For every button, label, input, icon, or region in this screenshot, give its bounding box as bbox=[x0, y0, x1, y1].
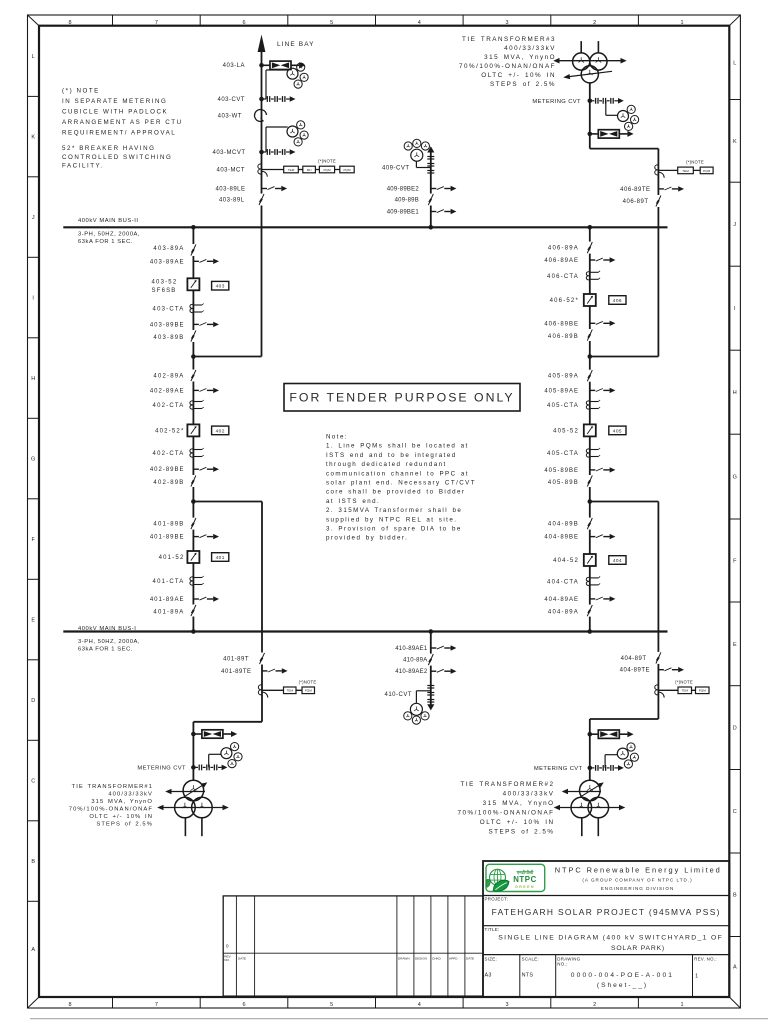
disconnector 402-89B bbox=[189, 475, 198, 487]
svg-text:TEM: TEM bbox=[288, 168, 295, 172]
grid tick dividers top/bottom bbox=[113, 15, 639, 1008]
wire tie1 upper vertical bbox=[261, 502, 263, 722]
svg-text:406-89B: 406-89B bbox=[548, 334, 579, 340]
svg-text:401-89B: 401-89B bbox=[153, 522, 184, 528]
grid numbers bottom bbox=[68, 1002, 683, 1008]
svg-text:A: A bbox=[733, 965, 737, 971]
svg-text:4: 4 bbox=[418, 1002, 421, 1008]
svg-text:OLTC +/- 10% IN: OLTC +/- 10% IN bbox=[89, 814, 153, 820]
svg-text:TIE TRANSFORMER#3: TIE TRANSFORMER#3 bbox=[462, 36, 556, 43]
svg-text:PQM: PQM bbox=[699, 689, 706, 693]
wire tie3 vertical bbox=[657, 149, 659, 357]
bay ref box 405 bbox=[609, 426, 626, 435]
wire tie1 lower vertical bbox=[192, 722, 194, 781]
CVT winding cluster tie3 bbox=[618, 105, 639, 130]
CVT tap wire tie2 bbox=[605, 755, 617, 768]
earth switch 401-89AE bbox=[193, 596, 219, 601]
svg-text:B: B bbox=[733, 893, 737, 899]
grid numbers top bbox=[68, 20, 683, 26]
current transformer 402-CTA lower bbox=[190, 448, 204, 457]
revision table bbox=[223, 896, 483, 996]
svg-text:404: 404 bbox=[613, 558, 622, 564]
svg-text:ARRANGEMENT AS PER CTU: ARRANGEMENT AS PER CTU bbox=[62, 119, 183, 126]
svg-text:405-89A: 405-89A bbox=[548, 374, 579, 380]
svg-text:410-89AE1: 410-89AE1 bbox=[395, 646, 428, 652]
svg-text:404-89AE: 404-89AE bbox=[544, 597, 579, 603]
meter box TEM bbox=[284, 687, 297, 694]
svg-text:APPD: APPD bbox=[449, 956, 458, 960]
disconnector 404-89T bbox=[654, 652, 663, 664]
svg-text:402-CTA: 402-CTA bbox=[153, 403, 185, 409]
svg-text:4: 4 bbox=[418, 20, 421, 26]
capacitor voltage transformer 403-CVT bbox=[259, 70, 295, 102]
svg-text:5: 5 bbox=[330, 1002, 333, 1008]
svg-text:7: 7 bbox=[155, 20, 158, 26]
svg-text:403-89L: 403-89L bbox=[219, 198, 245, 204]
svg-text:TIE TRANSFORMER#1: TIE TRANSFORMER#1 bbox=[72, 784, 153, 790]
svg-text:SOLAR PARK): SOLAR PARK) bbox=[611, 945, 665, 952]
current transformer 401-CTA bbox=[190, 576, 204, 585]
svg-text:405-CTA: 405-CTA bbox=[547, 403, 579, 409]
svg-text:404-89T: 404-89T bbox=[621, 656, 647, 662]
svg-text:63kA FOR 1 SEC.: 63kA FOR 1 SEC. bbox=[78, 646, 133, 652]
svg-text:D: D bbox=[733, 726, 737, 732]
svg-text:G: G bbox=[733, 475, 737, 481]
svg-text:406-89AE: 406-89AE bbox=[544, 258, 579, 264]
earth switch 405-89BE bbox=[590, 467, 616, 472]
svg-text:K: K bbox=[31, 135, 35, 141]
svg-text:409-89B: 409-89B bbox=[395, 198, 419, 204]
earth switch 406-89BE bbox=[590, 321, 616, 326]
svg-text:406-89BE: 406-89BE bbox=[544, 321, 579, 327]
svg-text:401-89T: 401-89T bbox=[223, 657, 249, 663]
junction dots on buses and nodes bbox=[191, 225, 592, 634]
svg-text:LINE BAY: LINE BAY bbox=[277, 41, 315, 48]
circuit breaker 405-52 bbox=[583, 424, 596, 437]
svg-text:7: 7 bbox=[155, 1002, 158, 1008]
svg-text:SIZE:: SIZE: bbox=[485, 956, 497, 961]
wire node2-left horizontal bbox=[193, 501, 262, 503]
meter box PQM bbox=[696, 687, 710, 694]
bay ref box 406 bbox=[609, 296, 626, 305]
metering CT tie2 bbox=[655, 685, 696, 698]
CVT capacitor stack 409 bbox=[427, 157, 434, 174]
earth switch 403-89BE bbox=[193, 322, 219, 327]
metering CVT 403-MCVT bbox=[259, 127, 295, 155]
svg-text:PQM: PQM bbox=[305, 689, 312, 693]
CVT tap wire tie3 bbox=[606, 101, 618, 116]
svg-text:5: 5 bbox=[330, 20, 333, 26]
svg-text:401-89TE: 401-89TE bbox=[221, 669, 251, 675]
meter box MU bbox=[303, 166, 316, 173]
svg-text:70%/100%-ONAN/ONAF: 70%/100%-ONAN/ONAF bbox=[458, 810, 555, 817]
svg-text:TEM: TEM bbox=[681, 689, 688, 693]
bay 410 down arrow bbox=[427, 704, 434, 710]
svg-text:70%/100%-ONAN/ONAF: 70%/100%-ONAN/ONAF bbox=[69, 807, 153, 813]
tie transformer 1 top arrow bbox=[165, 789, 205, 795]
size scale drawing cells bbox=[485, 956, 717, 988]
CVT winding cluster tie1 bbox=[221, 743, 242, 768]
svg-text:B: B bbox=[31, 859, 35, 865]
wave trap inner hook bbox=[261, 117, 264, 120]
svg-text:METERING CVT: METERING CVT bbox=[137, 765, 186, 771]
svg-text:J: J bbox=[733, 222, 736, 228]
svg-text:(*)NOTE: (*)NOTE bbox=[318, 159, 336, 164]
wire bay 409 vertical bbox=[430, 152, 432, 227]
svg-text:at ISTS end.: at ISTS end. bbox=[326, 498, 380, 505]
svg-text:315 MVA, YnynO: 315 MVA, YnynO bbox=[483, 800, 555, 807]
svg-text:TEM: TEM bbox=[682, 169, 689, 173]
svg-text:communication channel to PPC a: communication channel to PPC at bbox=[326, 470, 469, 477]
svg-text:400/33/33kV: 400/33/33kV bbox=[503, 791, 555, 798]
svg-text:DATE: DATE bbox=[466, 956, 474, 960]
disconnector 409-89B bbox=[426, 194, 435, 206]
svg-text:405-CTA: 405-CTA bbox=[547, 451, 579, 457]
svg-text:NO.:: NO.: bbox=[557, 962, 567, 967]
circuit breaker 403-52 bbox=[187, 278, 200, 291]
svg-text:G: G bbox=[31, 457, 35, 463]
svg-text:400/33/33kV: 400/33/33kV bbox=[108, 792, 153, 798]
CVT tap wire 409 bbox=[416, 161, 430, 167]
meter box TEM bbox=[678, 167, 694, 174]
earth switch 404-89TE bbox=[658, 667, 684, 672]
svg-text:70%/100%-ONAN/ONAF: 70%/100%-ONAN/ONAF bbox=[459, 63, 556, 70]
svg-text:405-89B: 405-89B bbox=[548, 480, 579, 486]
svg-text:3. Provision of spare DIA to b: 3. Provision of spare DIA to be bbox=[326, 526, 462, 533]
svg-text:315 MVA, YnynO: 315 MVA, YnynO bbox=[484, 54, 556, 61]
svg-text:J: J bbox=[32, 215, 35, 221]
svg-text:TIE TRANSFORMER#2: TIE TRANSFORMER#2 bbox=[461, 781, 555, 788]
current transformer 406-CTA bbox=[586, 271, 600, 280]
disconnector 403-89B bbox=[189, 330, 198, 342]
line bay up arrow bbox=[258, 35, 266, 53]
svg-text:3-PH, 50HZ, 2000A,: 3-PH, 50HZ, 2000A, bbox=[78, 231, 140, 237]
svg-text:(*) NOTE: (*) NOTE bbox=[62, 88, 100, 95]
FOR TENDER PURPOSE ONLY box bbox=[284, 384, 520, 412]
tie transformer 1 bottom arrow bbox=[157, 805, 229, 811]
svg-text:402: 402 bbox=[216, 428, 225, 434]
label tie transformer 2 bbox=[458, 781, 555, 836]
CVT winding cluster 410-CVT bbox=[404, 703, 429, 724]
svg-text:METERING CVT: METERING CVT bbox=[532, 99, 581, 105]
svg-text:3: 3 bbox=[505, 1002, 508, 1008]
CVT tap wire 410 bbox=[416, 691, 430, 703]
tie transformer 1 LV legs bbox=[185, 817, 202, 836]
svg-text:404-52: 404-52 bbox=[553, 558, 579, 564]
svg-text:REQUIREMENT/ APPROVAL: REQUIREMENT/ APPROVAL bbox=[62, 130, 176, 137]
disconnector 404-89B bbox=[585, 518, 594, 530]
disconnector 401-89B bbox=[189, 518, 198, 530]
svg-text:403-52: 403-52 bbox=[152, 280, 178, 286]
earth switch 409-89BE1 bbox=[431, 209, 457, 214]
svg-text:2: 2 bbox=[593, 1002, 596, 1008]
svg-text:A3: A3 bbox=[485, 973, 492, 979]
tie transformer 3 top arrow bbox=[553, 58, 626, 64]
earth switch 404-89BE bbox=[590, 534, 616, 539]
svg-text:406-89A: 406-89A bbox=[548, 246, 579, 252]
svg-text:401-89A: 401-89A bbox=[153, 610, 184, 616]
svg-text:C: C bbox=[31, 779, 35, 785]
earth switch 402-89BE bbox=[193, 467, 219, 472]
wire tie2 upper vertical bbox=[657, 502, 659, 720]
svg-text:STEPS of 2.5%: STEPS of 2.5% bbox=[488, 829, 554, 836]
disconnector 404-89A bbox=[585, 605, 594, 617]
wire node2-right horizontal bbox=[590, 501, 659, 503]
svg-text:C: C bbox=[733, 809, 737, 815]
svg-text:supplied by NTPC REL at site.: supplied by NTPC REL at site. bbox=[326, 516, 457, 523]
earth switch 403-89AE bbox=[193, 259, 219, 264]
svg-text:405-52: 405-52 bbox=[553, 428, 579, 434]
svg-text:404-89A: 404-89A bbox=[548, 610, 579, 616]
svg-text:401: 401 bbox=[216, 555, 225, 561]
svg-text:STEPS of 2.5%: STEPS of 2.5% bbox=[490, 81, 556, 88]
metering CVT junction tie2 bbox=[588, 765, 624, 771]
title row bbox=[485, 927, 724, 952]
svg-text:IN SEPARATE METERING: IN SEPARATE METERING bbox=[62, 98, 167, 105]
earth switch 401-89TE bbox=[262, 668, 288, 673]
label tie transformer 3 bbox=[459, 36, 556, 88]
svg-text:FOR TENDER PURPOSE ONLY: FOR TENDER PURPOSE ONLY bbox=[289, 391, 514, 405]
tie transformer 2 top arrow bbox=[562, 789, 601, 795]
svg-text:CONTROLLED SWITCHING: CONTROLLED SWITCHING bbox=[62, 154, 172, 161]
wire tie2 lower vertical bbox=[589, 719, 591, 781]
svg-text:A: A bbox=[31, 947, 35, 953]
svg-text:FACILITY.: FACILITY. bbox=[62, 163, 104, 170]
svg-text:402-CTA: 402-CTA bbox=[153, 451, 185, 457]
CVT winding cluster 403-MCVT bbox=[287, 121, 308, 146]
svg-text:SINGLE LINE DIAGRAM (400 k: SINGLE LINE DIAGRAM (400 kV SWITCHYARD_1… bbox=[498, 935, 723, 942]
wire left bay column bbox=[192, 227, 194, 631]
earth switch 409-89BE2 bbox=[431, 186, 457, 191]
grid letters right bbox=[733, 61, 737, 971]
svg-text:PQM: PQM bbox=[343, 168, 350, 172]
bay ref box 402 bbox=[212, 426, 229, 435]
circuit breaker 404-52 bbox=[583, 554, 596, 567]
svg-text:NTPC: NTPC bbox=[513, 875, 537, 884]
current transformer 404-CTA bbox=[586, 576, 600, 585]
svg-text:315 MVA, YnynO: 315 MVA, YnynO bbox=[91, 799, 153, 805]
current transformer 403-CTA bbox=[190, 304, 204, 313]
svg-text:403-CVT: 403-CVT bbox=[217, 97, 245, 103]
svg-text:Note:: Note: bbox=[326, 434, 348, 441]
disconnector 401-89A bbox=[189, 605, 198, 617]
bottom paper shadow bbox=[30, 1018, 768, 1020]
svg-text:406-CTA: 406-CTA bbox=[547, 274, 579, 280]
metering CT 403-MCT bbox=[258, 164, 340, 177]
meter box PQM bbox=[700, 167, 713, 174]
svg-text:CUBICLE WITH PADLOCK: CUBICLE WITH PADLOCK bbox=[62, 109, 168, 116]
svg-text:L: L bbox=[32, 54, 35, 60]
earth switch 402-89AE bbox=[193, 388, 219, 393]
svg-text:403-89A: 403-89A bbox=[153, 246, 184, 252]
bus 400kV MAIN BUS-II bbox=[63, 226, 667, 228]
meter box PQM bbox=[340, 166, 354, 173]
grid tick dividers right bbox=[729, 100, 740, 937]
svg-text:403-89BE: 403-89BE bbox=[150, 322, 185, 328]
wire tie3 transformer drop bbox=[589, 83, 591, 149]
tie transformer 1 windings bbox=[175, 780, 213, 818]
svg-text:METERING CVT: METERING CVT bbox=[534, 766, 583, 772]
grid letters left bbox=[31, 54, 35, 953]
svg-text:6: 6 bbox=[242, 1002, 245, 1008]
svg-text:E: E bbox=[31, 618, 35, 624]
bus 400kV MAIN BUS-I bbox=[63, 630, 667, 632]
svg-text:MU: MU bbox=[307, 168, 312, 172]
metering CVT junction tie3 bbox=[588, 98, 624, 104]
svg-text:6: 6 bbox=[242, 20, 245, 26]
tie transformer 2 LV legs bbox=[582, 817, 599, 836]
svg-text:1: 1 bbox=[680, 1002, 683, 1008]
svg-text:E: E bbox=[733, 642, 737, 648]
tie transformer 3 OLTC arrow bbox=[563, 71, 612, 79]
wire node1-left horizontal bbox=[193, 356, 261, 358]
svg-text:GREEN: GREEN bbox=[515, 885, 535, 889]
svg-text:DRAWN: DRAWN bbox=[398, 956, 410, 960]
svg-text:404-89B: 404-89B bbox=[548, 522, 579, 528]
wire right bay column bbox=[589, 227, 591, 631]
title block frame bbox=[483, 861, 729, 997]
surge arrester 403-LA bbox=[259, 61, 305, 69]
label tie transformer 1 bbox=[69, 784, 153, 828]
svg-text:3: 3 bbox=[505, 20, 508, 26]
svg-text:ENGINEERING DIVISION: ENGINEERING DIVISION bbox=[601, 886, 675, 891]
svg-text:63kA FOR 1 SEC.: 63kA FOR 1 SEC. bbox=[78, 239, 133, 245]
svg-text:401-89AE: 401-89AE bbox=[150, 597, 185, 603]
earth switch 406-89TE bbox=[658, 186, 684, 191]
svg-text:(A GROUP COMPANY OF NTPC: (A GROUP COMPANY OF NTPC LTD.) bbox=[582, 878, 692, 883]
svg-text:NO.: NO. bbox=[224, 958, 230, 962]
svg-text:core shall be provided to Bidd: core shall be provided to Bidder bbox=[326, 489, 465, 496]
svg-text:404-89BE: 404-89BE bbox=[544, 535, 579, 541]
svg-text:NTPC Renewable Energy Limit: NTPC Renewable Energy Limited bbox=[555, 865, 722, 874]
svg-text:(*)NOTE: (*)NOTE bbox=[686, 160, 704, 165]
svg-text:400kV MAIN BUS-I: 400kV MAIN BUS-I bbox=[78, 626, 136, 632]
meter box TEM bbox=[678, 687, 692, 694]
CVT tap wire tie1 bbox=[209, 754, 221, 767]
svg-text:410-CVT: 410-CVT bbox=[384, 692, 412, 698]
svg-text:401-52: 401-52 bbox=[159, 555, 185, 561]
svg-text:provided by bidder.: provided by bidder. bbox=[326, 535, 408, 542]
svg-text:2: 2 bbox=[593, 20, 596, 26]
svg-text:H: H bbox=[733, 390, 737, 396]
svg-text:401-CTA: 401-CTA bbox=[153, 579, 185, 585]
label bus I bbox=[78, 626, 140, 653]
svg-text:H: H bbox=[31, 376, 35, 382]
metering CT tie3 bbox=[655, 165, 700, 178]
meter box PQM bbox=[302, 687, 315, 694]
circuit breaker 401-52 bbox=[187, 551, 200, 564]
svg-text:403-89AE: 403-89AE bbox=[150, 259, 185, 265]
earth switch 401-89BE bbox=[193, 534, 219, 539]
svg-text:0000-004-POE-A-001: 0000-004-POE-A-001 bbox=[571, 972, 674, 979]
svg-text:402-89A: 402-89A bbox=[153, 374, 184, 380]
disconnector 405-89A bbox=[585, 370, 594, 382]
svg-text:CHKD: CHKD bbox=[432, 956, 442, 960]
svg-text:402-89AE: 402-89AE bbox=[150, 388, 185, 394]
project row bbox=[485, 897, 721, 917]
svg-text:409-89BE1: 409-89BE1 bbox=[387, 210, 420, 216]
circuit breaker 406-52* bbox=[583, 294, 596, 307]
disconnector 403-89L bbox=[257, 194, 266, 206]
svg-text:404-89TE: 404-89TE bbox=[620, 668, 650, 674]
meter box PQM bbox=[319, 166, 334, 173]
earth switch 404-89AE bbox=[590, 596, 616, 601]
svg-text:PQM: PQM bbox=[703, 169, 710, 173]
svg-text:402-52*: 402-52* bbox=[155, 428, 184, 434]
svg-text:406-52*: 406-52* bbox=[550, 298, 579, 304]
svg-text:FATEHGARH SOLAR PROJECT (94: FATEHGARH SOLAR PROJECT (945MVA PSS) bbox=[492, 907, 721, 917]
svg-text:405: 405 bbox=[613, 428, 622, 434]
bay ref box 401 bbox=[212, 553, 229, 562]
label bus II bbox=[78, 218, 140, 245]
svg-text:404-CTA: 404-CTA bbox=[547, 579, 579, 585]
note text block top-left bbox=[62, 88, 183, 170]
svg-text:406-89TE: 406-89TE bbox=[620, 187, 650, 193]
disconnector 406-89B bbox=[585, 329, 594, 341]
svg-text:403-MCT: 403-MCT bbox=[216, 168, 245, 174]
circuit breaker 402-52* bbox=[187, 424, 200, 437]
NTPC GREEN logo bbox=[486, 864, 545, 891]
svg-text:1: 1 bbox=[680, 20, 683, 26]
svg-text:403-MCVT: 403-MCVT bbox=[212, 150, 245, 156]
svg-text:403-LA: 403-LA bbox=[223, 63, 245, 69]
svg-text:405-89BE: 405-89BE bbox=[544, 468, 579, 474]
current transformer 405-CTA upper bbox=[586, 400, 600, 409]
earth switch 403-89LE bbox=[262, 186, 288, 191]
surge arrester tie3 bbox=[588, 130, 634, 138]
wire tie1 jog horizontal bbox=[193, 721, 262, 723]
wire bay 410 vertical bbox=[430, 632, 432, 705]
meter box TEM bbox=[284, 166, 299, 173]
svg-text:PROJECT:: PROJECT: bbox=[485, 897, 509, 902]
wire tie3 jog horizontal bbox=[590, 148, 659, 150]
bay ref box 404 bbox=[609, 556, 626, 565]
svg-text:409-89BE2: 409-89BE2 bbox=[387, 187, 420, 193]
tie transformer 2 OLTC arrow bbox=[580, 782, 604, 797]
svg-text:406-89T: 406-89T bbox=[623, 199, 649, 205]
wire node1-right horizontal bbox=[590, 356, 659, 358]
bay ref box 403 bbox=[212, 281, 229, 290]
CVT winding cluster 409-CVT bbox=[404, 139, 429, 161]
svg-text:400kV MAIN BUS-II: 400kV MAIN BUS-II bbox=[78, 218, 139, 224]
metering CT tie1 bbox=[258, 685, 302, 698]
svg-text:401-89BE: 401-89BE bbox=[150, 535, 185, 541]
disconnector 406-89A bbox=[585, 242, 594, 254]
svg-text:52* BREAKER HAVING: 52* BREAKER HAVING bbox=[62, 145, 155, 152]
tie transformer 3 HV stubs bbox=[581, 41, 598, 53]
svg-text:409-CVT: 409-CVT bbox=[382, 166, 410, 172]
earth switch 410-89AE2 bbox=[431, 669, 457, 674]
svg-text:(*)NOTE: (*)NOTE bbox=[299, 680, 317, 685]
svg-text:K: K bbox=[733, 139, 737, 145]
disconnector 405-89B bbox=[585, 475, 594, 487]
svg-text:410-89A: 410-89A bbox=[403, 658, 427, 664]
svg-text:1. Line PQMs shall be located: 1. Line PQMs shall be located at bbox=[326, 443, 469, 450]
current transformer 405-CTA lower bbox=[586, 448, 600, 457]
grid tick dividers left bbox=[28, 96, 40, 901]
wire tie2 jog horizontal bbox=[590, 718, 659, 720]
disconnector 406-89T bbox=[654, 195, 663, 207]
metering CVT junction tie1 bbox=[191, 765, 227, 771]
tie transformer 1 OLTC arrow bbox=[184, 782, 208, 797]
svg-text:403-WT: 403-WT bbox=[218, 114, 242, 120]
svg-text:ISTS end and to be integrated: ISTS end and to be integrated bbox=[326, 452, 457, 459]
company name text bbox=[555, 865, 722, 891]
tie transformer 2 windings bbox=[571, 780, 609, 818]
svg-text:SF6SB: SF6SB bbox=[152, 288, 177, 294]
svg-text:solar plant end. Necessary CT/: solar plant end. Necessary CT/CVT bbox=[326, 480, 476, 487]
svg-text:402-89B: 402-89B bbox=[153, 480, 184, 486]
